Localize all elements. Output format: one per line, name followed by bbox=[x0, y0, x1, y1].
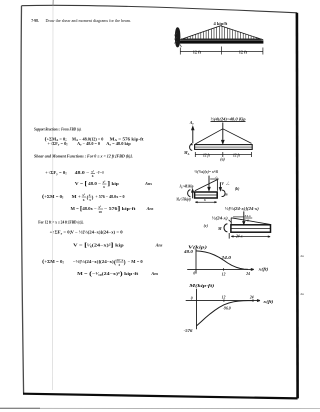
svg-text:x: x bbox=[203, 198, 206, 202]
resultant arrow (b) bbox=[208, 176, 210, 191]
load intensity arrow (c) bbox=[229, 220, 232, 223]
svg-text:3: 3 bbox=[118, 263, 120, 267]
scan artifact line bottom left darker bbox=[0, 407, 40, 409]
resultant underline bbox=[211, 120, 246, 122]
resultant arrow (a) bbox=[222, 123, 224, 144]
svg-text:(c): (c) bbox=[204, 224, 209, 228]
svg-text:0: 0 bbox=[193, 272, 195, 276]
svg-text:MA: MA bbox=[183, 150, 190, 156]
beam bar bbox=[180, 40, 264, 43]
svg-text:6: 6 bbox=[92, 174, 94, 178]
svg-text:M +: M + bbox=[72, 194, 82, 199]
svg-text:½[⅓(24-x)](24-x): ½[⅓(24-x)](24-x) bbox=[225, 207, 260, 211]
M horizontal axis bbox=[186, 300, 260, 302]
MA curl (b) bbox=[188, 190, 191, 197]
svg-text:12 ft: 12 ft bbox=[239, 50, 248, 54]
M curl (c) bbox=[224, 224, 227, 232]
dim line x (b) bbox=[195, 202, 217, 203]
svg-text:V(kip): V(kip) bbox=[188, 245, 208, 250]
svg-text:x²: x² bbox=[82, 193, 85, 197]
load slope (b) bbox=[195, 180, 218, 191]
svg-text:V = [: V = [ bbox=[75, 180, 87, 187]
svg-text:M: M bbox=[217, 226, 222, 231]
svg-text:7-98.: 7-98. bbox=[31, 18, 39, 23]
svg-text:48.0: 48.0 bbox=[183, 250, 193, 254]
svg-text:x³: x³ bbox=[98, 205, 101, 209]
svg-text:48.0 −: 48.0 − bbox=[88, 181, 102, 186]
Ay arrow (b) bbox=[192, 189, 194, 198]
V arrow (b) bbox=[219, 182, 221, 190]
distributed load right slope bbox=[221, 26, 264, 40]
svg-text:V: V bbox=[221, 182, 224, 186]
V arrow (c) bbox=[228, 233, 230, 239]
svg-text:+↑ΣFy = 0;: +↑ΣFy = 0; bbox=[50, 230, 72, 236]
svg-text:4 kip/ft: 4 kip/ft bbox=[214, 22, 229, 26]
M vertical axis bbox=[196, 289, 198, 330]
svg-text:24: 24 bbox=[249, 296, 254, 300]
centroid label denominator (c) bbox=[244, 217, 252, 219]
dim line 24-x (c) bbox=[231, 236, 270, 238]
svg-text:12: 12 bbox=[222, 272, 226, 276]
svg-text:½(⅓x)(x)= x²/6: ½(⅓x)(x)= x²/6 bbox=[194, 170, 218, 174]
fraction x2 over 6 bbox=[91, 170, 95, 179]
svg-text:6: 6 bbox=[103, 185, 105, 189]
svg-text:(+ΣM = 0;: (+ΣM = 0; bbox=[42, 193, 64, 200]
fixed wall support bbox=[175, 27, 181, 47]
svg-text:V − ½[⅓(24−x)](24−x) = 0: V − ½[⅓(24−x)](24−x) = 0 bbox=[71, 230, 123, 235]
svg-text:½(4)(24)=48.0 Kip: ½(4)(24)=48.0 Kip bbox=[211, 116, 246, 121]
svg-text:24: 24 bbox=[245, 272, 250, 276]
M curve bbox=[197, 301, 254, 326]
svg-text:For 12 ft < x ≤ 24 ft [FBD (c): For 12 ft < x ≤ 24 ft [FBD (c)]. bbox=[38, 219, 83, 224]
svg-text:-96.0: -96.0 bbox=[223, 307, 231, 311]
svg-text:12 ft: 12 ft bbox=[203, 153, 211, 157]
svg-text:− 576] kip·ft: − 576] kip·ft bbox=[104, 205, 137, 212]
scan artifact line bottom bbox=[0, 407, 320, 409]
beam (a) midline bbox=[195, 146, 252, 148]
V tick 12 bbox=[223, 268, 225, 270]
M tick 24 bbox=[252, 299, 254, 301]
svg-text:Ay=48.0kip: Ay=48.0kip bbox=[179, 185, 194, 190]
svg-text:− M = 0: − M = 0 bbox=[128, 259, 143, 264]
svg-text:MA=576kip·ft: MA=576kip·ft bbox=[176, 197, 192, 202]
resultant arrow (c) bbox=[243, 211, 245, 224]
load slope (c) bbox=[231, 218, 270, 225]
fraction 24-x over 3 bbox=[116, 258, 124, 267]
svg-text:x: x bbox=[89, 193, 91, 197]
dimension line beam bbox=[180, 50, 263, 52]
svg-text:x(ft): x(ft) bbox=[262, 300, 275, 304]
svg-text:m: m bbox=[225, 193, 228, 197]
svg-text:x²: x² bbox=[103, 180, 106, 184]
svg-text:0: 0 bbox=[191, 296, 193, 300]
svg-text:⅓(24-x): ⅓(24-x) bbox=[212, 216, 228, 220]
svg-text:(a): (a) bbox=[220, 158, 225, 162]
fraction x2 over 6 third bbox=[82, 193, 86, 202]
svg-text:6: 6 bbox=[83, 198, 85, 202]
beam (b) bbox=[195, 192, 218, 198]
dimension ticks bbox=[180, 47, 263, 55]
V curve bbox=[196, 251, 248, 270]
page left border bbox=[21, 6, 24, 394]
svg-text:+↑ΣFy = 0;: +↑ΣFy = 0; bbox=[48, 141, 68, 147]
distributed load left slope bbox=[180, 26, 220, 40]
svg-text:M(kip·ft): M(kip·ft) bbox=[188, 283, 215, 288]
page right border bbox=[296, 13, 299, 399]
svg-text:Ans: Ans bbox=[146, 206, 154, 211]
svg-text:48.0 −: 48.0 − bbox=[75, 170, 91, 175]
page bottom border bbox=[23, 394, 298, 399]
M tick 12 bbox=[223, 299, 225, 301]
M curl (b) bbox=[222, 190, 225, 196]
svg-text:ₓ⁄₃: ₓ⁄₃ bbox=[214, 175, 219, 179]
svg-text:Shear and Moment Functions : F: Shear and Moment Functions : For 0 ≤ x <… bbox=[34, 154, 133, 159]
beam (b) midline bbox=[195, 194, 217, 196]
svg-text:): ) bbox=[124, 259, 126, 266]
svg-text:12 ft: 12 ft bbox=[233, 153, 241, 157]
svg-text:Ans: Ans bbox=[155, 242, 163, 247]
svg-text:(+ΣM = 0;: (+ΣM = 0; bbox=[42, 258, 64, 265]
svg-text:): ) bbox=[92, 194, 94, 201]
fraction x2 over 6 second bbox=[102, 180, 106, 189]
svg-text:M = [48.0x −: M = [48.0x − bbox=[71, 205, 98, 212]
paren x over 3 bbox=[87, 193, 94, 202]
centroid dim x/3 (b) bbox=[210, 178, 219, 180]
svg-text:Support Reactions : From FBD (: Support Reactions : From FBD (a). bbox=[34, 127, 82, 132]
svg-text:24.0: 24.0 bbox=[220, 256, 231, 260]
svg-text:-576: -576 bbox=[184, 328, 193, 333]
page top border bbox=[22, 5, 298, 13]
svg-text:Ay: Ay bbox=[189, 120, 195, 126]
svg-text:V = [¹⁄₆(24−x)²] kip: V = [¹⁄₆(24−x)²] kip bbox=[73, 242, 125, 249]
dim line (a) bbox=[195, 152, 251, 157]
fraction x3 over 18 bbox=[98, 205, 103, 214]
svg-text:−½[⅓(24−x)](24−x): −½[⅓(24−x)](24−x) bbox=[73, 259, 115, 264]
beam (a) bbox=[195, 145, 253, 150]
svg-text:12: 12 bbox=[222, 296, 226, 300]
V vertical axis bbox=[195, 249, 197, 274]
svg-text:12 ft: 12 ft bbox=[193, 50, 202, 54]
crease line top bbox=[52, 0, 54, 6]
Ay arrow (a) bbox=[192, 127, 194, 144]
beam (c) midline bbox=[231, 228, 270, 230]
svg-text:+ 576 − 48.0x = 0: + 576 − 48.0x = 0 bbox=[95, 194, 124, 199]
svg-text:du: du bbox=[301, 254, 305, 258]
svg-text:Ay − 48.0 = 0: Ay − 48.0 = 0 bbox=[77, 141, 100, 147]
MA curl (a) bbox=[190, 144, 193, 151]
beam (c) bbox=[231, 225, 271, 232]
svg-text:−V = 0: −V = 0 bbox=[96, 170, 103, 175]
V horizontal axis bbox=[187, 268, 254, 270]
wall hatch bbox=[174, 33, 181, 47]
crease line faint full height bbox=[51, 6, 54, 390]
svg-text:x²: x² bbox=[91, 170, 94, 174]
svg-text:ₓ⁄₃: ₓ⁄₃ bbox=[225, 182, 230, 186]
svg-text:18: 18 bbox=[98, 210, 102, 214]
svg-text:] kip: ] kip bbox=[107, 180, 119, 187]
svg-text:Ay = 48.0 kip: Ay = 48.0 kip bbox=[106, 141, 131, 147]
distributed load arrowhead band bbox=[181, 39, 262, 41]
svg-text:24-x: 24-x bbox=[243, 214, 251, 218]
svg-text:Ans: Ans bbox=[144, 181, 152, 186]
svg-text:M = (−¹⁄₁₈(24−x)³) kip·ft: M = (−¹⁄₁₈(24−x)³) kip·ft bbox=[77, 270, 139, 277]
svg-text:du: du bbox=[301, 292, 305, 296]
load slopes (a) bbox=[195, 129, 251, 144]
svg-text:(b): (b) bbox=[235, 187, 240, 191]
centroid dim arrow (c) bbox=[233, 216, 243, 218]
svg-text:24-x: 24-x bbox=[235, 235, 243, 239]
distributed load arrows bbox=[185, 26, 257, 39]
svg-text:Ans: Ans bbox=[150, 271, 158, 276]
svg-text:Draw the shear and moment diag: Draw the shear and moment diagrams for t… bbox=[46, 18, 132, 23]
svg-text:+↑ΣFy = 0;: +↑ΣFy = 0; bbox=[45, 170, 67, 176]
svg-text:x(ft): x(ft) bbox=[257, 268, 269, 272]
svg-text:24−x: 24−x bbox=[116, 258, 123, 262]
